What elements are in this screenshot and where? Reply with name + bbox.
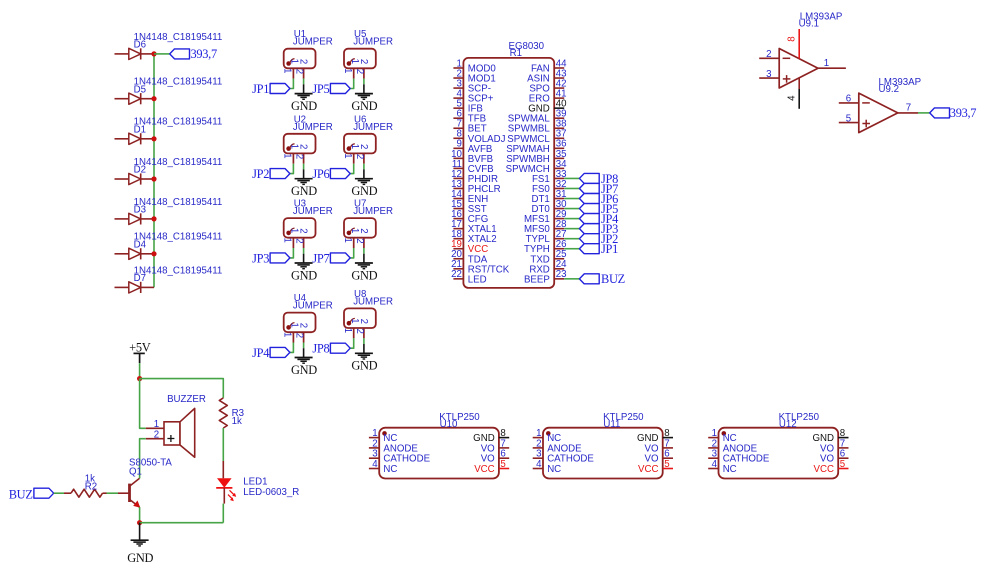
svg-text:D7: D7 xyxy=(134,273,146,284)
svg-text:2: 2 xyxy=(354,238,365,243)
svg-text:2: 2 xyxy=(298,228,309,233)
resistor R3 xyxy=(219,398,227,428)
R1 pin 41 (ERO) xyxy=(529,89,567,105)
R1 pin 8 (VOLADJ) xyxy=(453,129,505,145)
svg-text:8: 8 xyxy=(787,36,798,41)
ground GND at U6 xyxy=(351,179,377,198)
svg-text:2: 2 xyxy=(354,329,365,334)
op-amp U9.1 LM393AP xyxy=(759,49,846,89)
ground GND (buzzer) xyxy=(127,523,153,566)
wire ground node to LED branch xyxy=(140,522,224,524)
wire Q1 emitter to ground node xyxy=(139,507,141,523)
wire U5 pin 2 to ground xyxy=(363,79,365,94)
svg-text:NC: NC xyxy=(383,464,397,475)
net flag JP2 xyxy=(252,167,290,181)
svg-text:393,7: 393,7 xyxy=(950,106,976,120)
svg-text:U11: U11 xyxy=(603,419,620,430)
R1 pin 19 (VCC) xyxy=(451,239,488,255)
R1 pin 39 (SPWMAL) xyxy=(508,109,567,125)
diode D2 1N4148 xyxy=(115,173,155,184)
U12 pin 5 (VCC) xyxy=(814,459,849,475)
U10 pin 5 (VCC) xyxy=(474,459,509,475)
svg-text:1: 1 xyxy=(282,332,293,337)
label U10 KTLP250 xyxy=(439,412,480,430)
label U5 JUMPER xyxy=(344,49,376,79)
R1 pin 22 (LED) xyxy=(451,269,487,285)
svg-text:NC: NC xyxy=(547,464,561,475)
wire vertical bus (diode cathodes net 393,7) xyxy=(153,54,155,288)
wire +5V to junction xyxy=(139,363,141,379)
R1 pin 1 (MOD0) xyxy=(453,58,496,74)
svg-text:1N4148_C18195411: 1N4148_C18195411 xyxy=(134,197,223,208)
R1 pin 40 (GND) xyxy=(528,99,567,115)
svg-text:VCC: VCC xyxy=(474,464,494,475)
svg-text:JP4: JP4 xyxy=(252,346,269,360)
svg-text:JP1: JP1 xyxy=(601,242,618,256)
ground GND at U7 xyxy=(351,263,377,282)
svg-text:4: 4 xyxy=(787,95,798,101)
wire R1 pin 31 to JP6 xyxy=(564,198,579,200)
optocoupler U11 KTLP250 body xyxy=(543,428,663,479)
U10 pin 4 (NC) xyxy=(369,459,398,475)
svg-text:U9.1: U9.1 xyxy=(799,19,819,30)
svg-text:BUZZER: BUZZER xyxy=(167,394,206,405)
wire U4 pin 2 to ground xyxy=(303,343,305,358)
buzzer BUZZER xyxy=(146,408,195,457)
label U9.1 LM393AP xyxy=(799,11,843,29)
wire JP6 to U6 pin 1 xyxy=(350,164,354,174)
U9.1 pin numbers 2 3 1 xyxy=(766,49,829,80)
svg-text:22: 22 xyxy=(451,269,462,280)
svg-text:D3: D3 xyxy=(134,205,146,216)
svg-text:LED: LED xyxy=(468,274,487,285)
svg-text:7: 7 xyxy=(906,103,911,114)
svg-text:2: 2 xyxy=(294,238,305,243)
R1 pin 43 (ASIN) xyxy=(527,68,566,84)
R1 pin 11 (CVFB) xyxy=(452,159,494,175)
svg-text:4: 4 xyxy=(372,459,378,470)
wire R2 to Q1 base xyxy=(107,492,119,494)
svg-text:D1: D1 xyxy=(134,125,146,136)
R1 pin 36 (SPWMAH) xyxy=(506,139,566,155)
svg-text:VCC: VCC xyxy=(638,464,658,475)
wire U2 pin 2 to ground xyxy=(303,164,305,179)
R1 pin 32 (FS0) xyxy=(532,179,566,195)
svg-text:5: 5 xyxy=(500,459,505,470)
wire BUZ to R2 xyxy=(54,492,64,494)
label BUZZER xyxy=(167,394,206,405)
U11 pin 6 (VO) xyxy=(645,449,674,465)
ground GND at U8 xyxy=(351,353,377,372)
svg-text:JUMPER: JUMPER xyxy=(353,37,393,48)
wire +5V node down to buzzer pin 1 xyxy=(140,379,146,429)
R1 pin 18 (XTAL2) xyxy=(451,229,497,245)
U11 pin 1 (NC) xyxy=(533,428,562,444)
wire JP7 to U7 pin 1 xyxy=(350,248,354,258)
svg-text:2: 2 xyxy=(298,323,309,328)
U12 pin 7 (VO) xyxy=(820,438,849,454)
R1 pin 3 (SCP-) xyxy=(453,78,491,94)
svg-text:2: 2 xyxy=(298,144,309,149)
U12 pin 8 (GND) xyxy=(812,428,848,444)
net flag JP1 xyxy=(252,82,290,96)
R1 pin 4 (SCP+) xyxy=(453,89,493,105)
wire JP8 to U8 pin 1 xyxy=(350,338,354,348)
U9.1 pin 4 (V-) xyxy=(787,78,800,109)
svg-text:BUZ: BUZ xyxy=(9,487,33,501)
label R3 1k xyxy=(232,408,244,427)
svg-text:1N4148_C18195411: 1N4148_C18195411 xyxy=(134,232,223,243)
label U11 KTLP250 xyxy=(603,412,644,430)
label D4 value 1N4148_C18195411 xyxy=(134,232,223,251)
svg-text:393,7: 393,7 xyxy=(191,47,217,61)
R1 pin 10 (BVFB) xyxy=(451,149,493,165)
svg-text:1: 1 xyxy=(342,328,353,333)
ground GND at U4 xyxy=(291,358,317,377)
U12 pin 1 (NC) xyxy=(708,428,737,444)
label LED1 LED-0603_R xyxy=(243,477,299,498)
wire R1 pin 27 to JP2 xyxy=(564,238,579,240)
R1 pin 42 (SPO) xyxy=(529,78,566,94)
label D3 value 1N4148_C18195411 xyxy=(134,197,223,216)
svg-text:JUMPER: JUMPER xyxy=(353,206,393,217)
svg-text:U12: U12 xyxy=(779,419,797,430)
U11 pin 2 (ANODE) xyxy=(533,438,582,454)
label D1 value 1N4148_C18195411 xyxy=(134,117,223,136)
label D5 value 1N4148_C18195411 xyxy=(134,77,223,96)
BUZZER pin numbers xyxy=(154,419,159,440)
R1 pin 29 (MFS1) xyxy=(524,209,567,225)
wire JP4 to U4 pin 1 xyxy=(290,343,294,353)
R1 pin 26 (TYPH) xyxy=(524,239,567,255)
svg-text:+5V: +5V xyxy=(129,341,151,355)
R1 pin 15 (SST) xyxy=(451,199,487,215)
svg-text:JUMPER: JUMPER xyxy=(353,296,393,307)
resistor R2 xyxy=(64,489,107,497)
U12 pin 3 (CATHODE) xyxy=(708,449,770,465)
svg-text:JP7: JP7 xyxy=(312,251,329,265)
R1 pin 6 (TFB) xyxy=(453,109,486,125)
svg-text:1: 1 xyxy=(342,238,353,243)
wire JP5 to U5 pin 1 xyxy=(350,79,354,89)
junction at diode D2 xyxy=(151,176,156,181)
svg-text:JP5: JP5 xyxy=(312,82,329,96)
svg-text:1: 1 xyxy=(282,68,293,73)
svg-text:5: 5 xyxy=(846,113,851,124)
wire LED1 to bottom node xyxy=(222,504,224,523)
svg-text:BUZ: BUZ xyxy=(601,272,625,286)
wire R3 to LED1 xyxy=(222,428,224,478)
label D7 value 1N4148_C18195411 xyxy=(134,265,223,284)
ground GND at U2 xyxy=(291,179,317,198)
svg-text:JUMPER: JUMPER xyxy=(353,122,393,133)
net flag JP7 (at R1) xyxy=(579,182,618,196)
svg-text:1: 1 xyxy=(154,419,159,430)
wire R1 pin 26 to JP1 xyxy=(564,248,579,250)
U10 pin 6 (VO) xyxy=(481,449,510,465)
R1 pin 14 (ENH) xyxy=(451,189,488,205)
R1 pin 28 (MFS0) xyxy=(524,219,567,235)
U11 pin 5 (VCC) xyxy=(638,459,673,475)
U11 pin 4 (NC) xyxy=(533,459,562,475)
R1 pin 24 (RXD) xyxy=(529,259,567,275)
svg-text:1N4148_C18195411: 1N4148_C18195411 xyxy=(134,117,223,128)
label U3 JUMPER xyxy=(284,218,316,248)
wire buzzer pin 2 to Q1 collector xyxy=(140,439,146,476)
U10 pin 3 (CATHODE) xyxy=(369,449,431,465)
svg-text:2: 2 xyxy=(154,430,159,441)
R1 pin 44 (FAN) xyxy=(531,58,567,74)
svg-text:2: 2 xyxy=(294,333,305,338)
R1 pin 27 (TYPL) xyxy=(526,229,567,245)
wire R1 pin 23 BEEP to BUZ xyxy=(564,278,579,280)
svg-text:GND: GND xyxy=(351,184,377,198)
diode D1 1N4148 xyxy=(115,133,155,144)
svg-text:GND: GND xyxy=(127,551,153,565)
svg-text:2: 2 xyxy=(358,319,369,324)
IC R1 EG8030 body xyxy=(463,58,554,288)
diode D7 1N4148 xyxy=(115,282,155,293)
svg-text:2: 2 xyxy=(766,49,771,60)
svg-text:2: 2 xyxy=(358,144,369,149)
wire U7 pin 2 to ground xyxy=(363,248,365,263)
R1 pin 23 (BEEP) xyxy=(524,269,567,285)
svg-text:6: 6 xyxy=(846,94,851,105)
wire R1 pin 32 to JP7 xyxy=(564,187,579,189)
label U7 JUMPER xyxy=(344,218,376,248)
net flag JP8 (at R1) xyxy=(579,172,618,186)
svg-text:2: 2 xyxy=(354,154,365,159)
svg-text:Q1: Q1 xyxy=(129,467,142,478)
net flag JP3 xyxy=(252,251,290,265)
U11 pin 7 (VO) xyxy=(645,438,674,454)
svg-text:1k: 1k xyxy=(232,416,242,427)
svg-text:U10: U10 xyxy=(440,419,458,430)
svg-text:JUMPER: JUMPER xyxy=(293,206,333,217)
label U4 JUMPER xyxy=(284,313,316,343)
R1 pin 31 (DT1) xyxy=(531,189,566,205)
label U1 JUMPER xyxy=(284,49,316,79)
svg-text:U9.2: U9.2 xyxy=(879,84,899,95)
wire Q1 collector up xyxy=(139,476,141,478)
label U6 JUMPER xyxy=(344,134,376,164)
svg-text:JP8: JP8 xyxy=(312,342,329,356)
svg-text:JP3: JP3 xyxy=(252,251,269,265)
U12 pin 2 (ANODE) xyxy=(708,438,757,454)
svg-text:3: 3 xyxy=(766,69,771,80)
wire JP3 to U3 pin 1 xyxy=(290,248,294,258)
junction at diode D6 xyxy=(151,51,156,56)
U11 pin 3 (CATHODE) xyxy=(533,449,595,465)
svg-text:R1: R1 xyxy=(510,48,522,59)
wire +5V node to R3 branch xyxy=(140,379,224,398)
LED LED1 xyxy=(216,478,236,503)
net flag BUZ (at R1) xyxy=(579,272,624,286)
svg-text:GND: GND xyxy=(291,184,317,198)
U10 pin 7 (VO) xyxy=(481,438,510,454)
svg-text:2: 2 xyxy=(294,69,305,74)
net flag JP4 xyxy=(252,346,290,360)
svg-text:GND: GND xyxy=(291,363,317,377)
wire U8 pin 2 to ground xyxy=(363,338,365,353)
R1 pin 7 (BET) xyxy=(453,119,486,135)
svg-text:GND: GND xyxy=(351,99,377,113)
svg-text:2: 2 xyxy=(358,228,369,233)
label U8 JUMPER xyxy=(344,308,376,338)
label U9.2 LM393AP xyxy=(879,77,922,95)
net flag JP6 xyxy=(312,167,350,181)
svg-text:D4: D4 xyxy=(134,240,147,251)
diode D5 1N4148 xyxy=(115,93,155,104)
ground GND at U3 xyxy=(291,263,317,282)
svg-text:JP1: JP1 xyxy=(252,82,269,96)
R1 pin 34 (SPWMCH) xyxy=(506,159,567,175)
svg-text:5: 5 xyxy=(664,459,669,470)
svg-text:2: 2 xyxy=(358,59,369,64)
U9.2 pin numbers 6 5 7 xyxy=(846,94,911,125)
R1 pin 20 (TDA) xyxy=(451,249,488,265)
net flag JP7 xyxy=(312,251,350,265)
net flag 393,7 (top) xyxy=(170,47,217,61)
optocoupler U12 KTLP250 body xyxy=(719,428,839,479)
wire R1 pin 29 to JP4 xyxy=(564,218,579,220)
R1 pin 17 (XTAL1) xyxy=(451,219,497,235)
svg-text:LED-0603_R: LED-0603_R xyxy=(243,487,299,498)
R1 pin 30 (DT0) xyxy=(531,199,567,215)
svg-text:D6: D6 xyxy=(134,40,146,51)
label U2 JUMPER xyxy=(284,134,316,164)
ground GND at U5 xyxy=(351,94,377,113)
svg-text:4: 4 xyxy=(536,459,542,470)
svg-text:VCC: VCC xyxy=(814,464,834,475)
wire R1 pin 28 to JP3 xyxy=(564,228,579,230)
wire U3 pin 2 to ground xyxy=(303,248,305,263)
svg-text:JUMPER: JUMPER xyxy=(293,301,333,312)
net flag JP5 xyxy=(312,82,350,96)
diode D4 1N4148 xyxy=(115,248,155,259)
wire U1 pin 2 to ground xyxy=(303,79,305,94)
R1 pin 33 (FS1) xyxy=(532,169,566,185)
label R1 EG8030 xyxy=(509,41,545,59)
junction at diode D1 xyxy=(151,136,156,141)
transistor Q1 S8050-TA xyxy=(118,478,140,508)
svg-text:NC: NC xyxy=(723,464,737,475)
net flag JP6 (at R1) xyxy=(579,192,618,206)
junction ground node xyxy=(137,520,142,525)
U9.1 pin 8 (V+) xyxy=(787,29,800,59)
R1 pin 9 (AVFB) xyxy=(453,139,492,155)
label R2 1k xyxy=(85,473,97,492)
svg-text:GND: GND xyxy=(351,268,377,282)
R1 pin 12 (PHDIR) xyxy=(451,169,498,185)
net flag JP4 (at R1) xyxy=(579,212,618,226)
wire JP2 to U2 pin 1 xyxy=(290,164,294,174)
wire to net flag 393,7 xyxy=(154,53,170,55)
wire R1 pin 33 to JP8 xyxy=(564,177,579,179)
R1 pin 35 (SPWMBH) xyxy=(506,149,566,165)
net flag JP5 (at R1) xyxy=(579,202,618,216)
wire U6 pin 2 to ground xyxy=(363,164,365,179)
net flag BUZ (input) xyxy=(9,487,54,501)
label D2 value 1N4148_C18195411 xyxy=(134,157,223,176)
net flag JP1 (at R1) xyxy=(579,242,618,256)
U12 pin 6 (VO) xyxy=(820,449,849,465)
R1 pin 21 (RST/TCK) xyxy=(451,259,510,275)
svg-text:1N4148_C18195411: 1N4148_C18195411 xyxy=(134,77,223,88)
U10 pin 1 (NC) xyxy=(369,428,398,444)
svg-text:GND: GND xyxy=(351,359,377,373)
diode D6 1N4148 xyxy=(115,48,155,59)
wire JP1 to U1 pin 1 xyxy=(290,79,294,89)
R1 pin 38 (SPWMBL) xyxy=(508,119,567,135)
svg-text:JP6: JP6 xyxy=(312,167,329,181)
wire U9.2 output to 393,7 xyxy=(918,112,930,114)
svg-text:2: 2 xyxy=(354,69,365,74)
label Q1 S8050-TA xyxy=(129,458,172,478)
R1 pin 16 (CFG) xyxy=(451,209,488,225)
label U12 KTLP250 xyxy=(779,412,820,430)
R1 pin 25 (TXD) xyxy=(530,249,566,265)
svg-text:4: 4 xyxy=(712,459,718,470)
junction at diode D4 xyxy=(151,251,156,256)
U12 pin 4 (NC) xyxy=(708,459,737,475)
U11 pin 8 (GND) xyxy=(637,428,673,444)
R1 pin 5 (IFB) xyxy=(453,99,482,115)
svg-text:2: 2 xyxy=(298,59,309,64)
net flag JP3 (at R1) xyxy=(579,222,618,236)
junction +5V node xyxy=(137,376,142,381)
svg-text:GND: GND xyxy=(291,99,317,113)
net flag JP8 xyxy=(312,342,350,356)
net flag JP2 (at R1) xyxy=(579,232,618,246)
svg-text:D5: D5 xyxy=(134,84,146,95)
R1 pin 37 (SPWMCL) xyxy=(507,129,566,145)
junction at diode D5 xyxy=(151,96,156,101)
U10 pin 2 (ANODE) xyxy=(369,438,418,454)
svg-text:JUMPER: JUMPER xyxy=(293,122,333,133)
svg-text:1: 1 xyxy=(282,153,293,158)
svg-text:JUMPER: JUMPER xyxy=(293,37,333,48)
R1 pin 2 (MOD1) xyxy=(453,68,495,84)
svg-text:1: 1 xyxy=(342,68,353,73)
power +5V xyxy=(129,341,151,364)
svg-text:1N4148_C18195411: 1N4148_C18195411 xyxy=(134,32,223,43)
optocoupler U10 KTLP250 body xyxy=(379,428,499,479)
wire R1 pin 30 to JP5 xyxy=(564,208,579,210)
label D6 value 1N4148_C18195411 xyxy=(134,32,223,51)
net flag 393,7 (at U9.2) xyxy=(930,106,977,120)
junction at diode D3 xyxy=(151,216,156,221)
svg-text:R2: R2 xyxy=(85,482,97,493)
svg-text:1: 1 xyxy=(342,153,353,158)
svg-text:GND: GND xyxy=(291,268,317,282)
U10 pin 8 (GND) xyxy=(473,428,509,444)
svg-text:D2: D2 xyxy=(134,165,146,176)
svg-text:BEEP: BEEP xyxy=(524,274,550,285)
svg-text:5: 5 xyxy=(840,459,845,470)
diode D3 1N4148 xyxy=(115,213,155,224)
svg-text:1: 1 xyxy=(282,238,293,243)
R1 pin 13 (PHCLR) xyxy=(451,179,501,195)
op-amp U9.2 LM393AP xyxy=(839,93,918,133)
svg-text:2: 2 xyxy=(294,154,305,159)
ground GND at U1 xyxy=(291,94,317,113)
svg-text:1N4148_C18195411: 1N4148_C18195411 xyxy=(134,157,223,168)
svg-text:1N4148_C18195411: 1N4148_C18195411 xyxy=(134,265,223,276)
svg-text:JP2: JP2 xyxy=(252,167,269,181)
svg-text:1: 1 xyxy=(824,58,829,69)
